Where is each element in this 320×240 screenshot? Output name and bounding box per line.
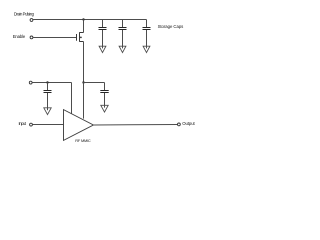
wire Enable to gate bbox=[33, 37, 76, 39]
wire bias feed into amp bbox=[71, 83, 73, 114]
capacitor storage C2 bbox=[119, 20, 127, 49]
svg-text:Output: Output bbox=[182, 121, 195, 126]
wire top rail bbox=[33, 19, 147, 21]
ground of C4 bbox=[44, 108, 51, 115]
terminal Drain Pulsing bbox=[30, 19, 33, 22]
svg-text:Enable: Enable bbox=[13, 34, 26, 39]
ground of C2 bbox=[119, 46, 126, 52]
capacitor C4 (bias decoupling) bbox=[44, 83, 52, 111]
terminal gate-bias (unlabeled) bbox=[29, 81, 32, 84]
capacitor storage C3 bbox=[143, 20, 151, 49]
ground of C3 bbox=[143, 46, 150, 52]
wire Q1 source down bbox=[83, 42, 85, 83]
wire output bbox=[93, 124, 177, 127]
capacitor C5 (drain decoupling) bbox=[100, 83, 108, 108]
wire input bbox=[33, 124, 64, 126]
junction bias cap tap bbox=[46, 81, 48, 83]
svg-text:RF MMIC: RF MMIC bbox=[75, 138, 91, 143]
capacitor storage C1 bbox=[99, 20, 107, 49]
op-amp U1 RF MMIC bbox=[64, 110, 94, 141]
wire source node to C5 bbox=[84, 82, 105, 84]
terminal Output bbox=[178, 123, 181, 126]
svg-text:Storage Caps: Storage Caps bbox=[158, 24, 184, 29]
junction source node bbox=[82, 81, 84, 83]
terminal Enable bbox=[30, 36, 33, 39]
ground of C5 bbox=[101, 105, 108, 112]
junction drain node bbox=[82, 18, 84, 20]
ground of C1 bbox=[99, 46, 106, 52]
terminal Input bbox=[30, 123, 33, 126]
svg-text:Drain Pulsing: Drain Pulsing bbox=[14, 11, 35, 16]
wire drain feed into amp bbox=[83, 83, 85, 119]
wire Q1 drain up to rail bbox=[83, 20, 85, 33]
transistor Q1 (MOSFET switch) bbox=[77, 32, 84, 42]
wire bias row left bbox=[32, 82, 71, 84]
